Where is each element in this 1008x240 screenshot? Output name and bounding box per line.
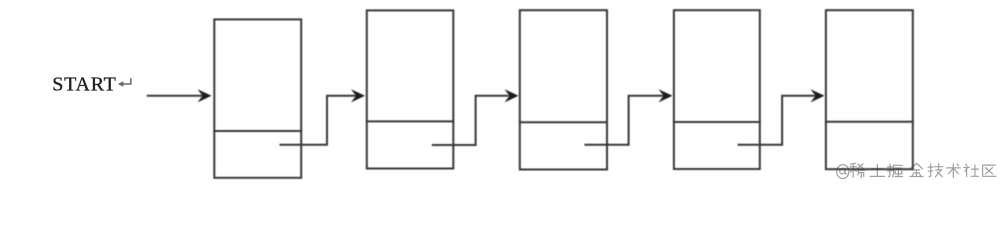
- node box 3: [520, 10, 607, 169]
- watermark @稀土掘金技术社区 (drawn strokes, gray): [837, 163, 996, 178]
- wire 1: box1 next pointer to box2: [280, 96, 358, 145]
- wire 3: box3 next pointer to box4: [584, 96, 664, 145]
- node box 5 divider: [825, 121, 914, 123]
- 土: [870, 165, 884, 177]
- node box 4: [674, 10, 760, 169]
- START arrow shaft: [147, 95, 203, 97]
- 掘: [888, 164, 903, 177]
- @: [837, 165, 849, 179]
- node box 4 divider: [673, 121, 761, 123]
- paragraph return mark after START: [121, 78, 131, 84]
- wire 2: box2 next pointer to box3: [432, 96, 510, 145]
- wire 1 arrowhead: [351, 89, 365, 102]
- 技: [928, 164, 943, 177]
- 区: [983, 165, 996, 176]
- 稀: [850, 163, 865, 177]
- node box 5: [826, 10, 913, 169]
- node box 3 divider: [519, 121, 608, 123]
- wire 4: box4 next pointer to box5: [738, 96, 816, 145]
- node box 2 divider: [366, 120, 455, 122]
- wire 3 arrowhead: [659, 89, 673, 102]
- node box 1: [214, 19, 301, 177]
- node box 1 divider: [213, 130, 302, 132]
- svg-text:START: START: [52, 74, 116, 96]
- node box 2: [367, 10, 454, 168]
- START arrowhead: [198, 89, 212, 102]
- wire 4 arrowhead: [811, 89, 825, 102]
- 术: [947, 164, 961, 178]
- 金: [910, 164, 923, 177]
- wire 2 arrowhead: [505, 89, 519, 102]
- 社: [964, 164, 979, 176]
